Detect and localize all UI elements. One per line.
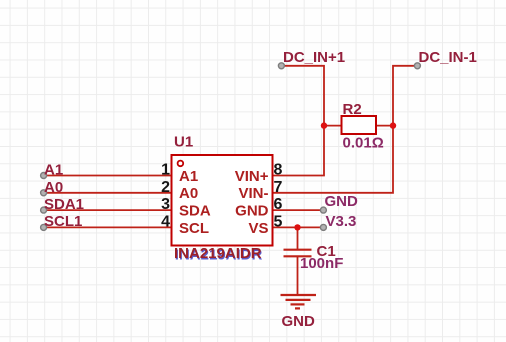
svg-text:0.01Ω: 0.01Ω: [343, 135, 384, 152]
svg-text:R2: R2: [343, 101, 362, 118]
svg-text:SDA: SDA: [179, 203, 211, 220]
svg-text:VIN+: VIN+: [235, 168, 269, 185]
svg-text:5: 5: [274, 213, 283, 230]
svg-text:1: 1: [161, 162, 170, 179]
svg-text:U1: U1: [174, 134, 193, 151]
svg-text:A1: A1: [179, 168, 198, 185]
svg-text:A0: A0: [179, 185, 198, 202]
svg-text:INA219AIDR: INA219AIDR: [174, 245, 262, 262]
svg-text:100nF: 100nF: [300, 255, 343, 272]
svg-text:VIN-: VIN-: [239, 185, 269, 202]
svg-text:GND: GND: [282, 313, 316, 330]
svg-text:V3.3: V3.3: [326, 213, 357, 230]
svg-text:6: 6: [274, 196, 283, 213]
svg-text:3: 3: [161, 196, 170, 213]
svg-text:7: 7: [274, 179, 283, 196]
svg-text:4: 4: [161, 213, 170, 230]
svg-text:SCL: SCL: [179, 220, 209, 237]
svg-text:A1: A1: [44, 162, 63, 179]
svg-text:GND: GND: [325, 193, 359, 210]
svg-text:VS: VS: [248, 220, 268, 237]
svg-text:8: 8: [274, 162, 283, 179]
svg-text:2: 2: [161, 179, 170, 196]
svg-text:DC_IN-1: DC_IN-1: [419, 49, 477, 66]
svg-text:A0: A0: [44, 179, 63, 196]
svg-text:GND: GND: [235, 203, 269, 220]
svg-text:SCL1: SCL1: [44, 213, 82, 230]
svg-text:DC_IN+1: DC_IN+1: [283, 49, 345, 66]
svg-text:SDA1: SDA1: [44, 196, 84, 213]
